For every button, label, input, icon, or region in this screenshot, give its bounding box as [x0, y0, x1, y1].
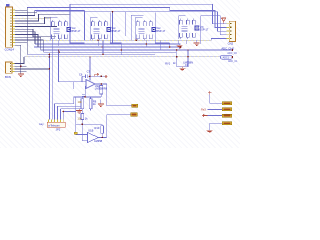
- svg-text:C6: C6: [79, 73, 83, 77]
- svg-text:R8: R8: [103, 87, 107, 91]
- svg-text:JP2: JP2: [56, 128, 61, 132]
- svg-text:C7: C7: [87, 69, 91, 73]
- svg-text:key: key: [39, 122, 44, 126]
- svg-text:RV1: RV1: [165, 63, 170, 66]
- svg-text:Ra3: Ra3: [201, 108, 206, 112]
- svg-text:ADC_C1: ADC_C1: [228, 60, 238, 63]
- svg-text:1k: 1k: [85, 116, 88, 120]
- svg-text:CON14: CON14: [5, 47, 15, 51]
- svg-text:CN2: CN2: [228, 41, 234, 45]
- svg-text:1k: 1k: [173, 62, 176, 65]
- svg-text:BCN: BCN: [5, 75, 11, 79]
- svg-text:ADC_C0: ADC_C0: [227, 52, 237, 55]
- svg-text:R10: R10: [95, 126, 100, 130]
- svg-text:LM358: LM358: [95, 87, 103, 91]
- svg-text:10k: 10k: [78, 116, 83, 120]
- svg-text:ADC1: ADC1: [223, 57, 230, 60]
- svg-text:LM358: LM358: [94, 139, 102, 143]
- svg-text:10k: 10k: [78, 100, 83, 104]
- svg-text:U1B: U1B: [88, 129, 93, 133]
- svg-text:a-Telecom: a-Telecom: [48, 124, 60, 127]
